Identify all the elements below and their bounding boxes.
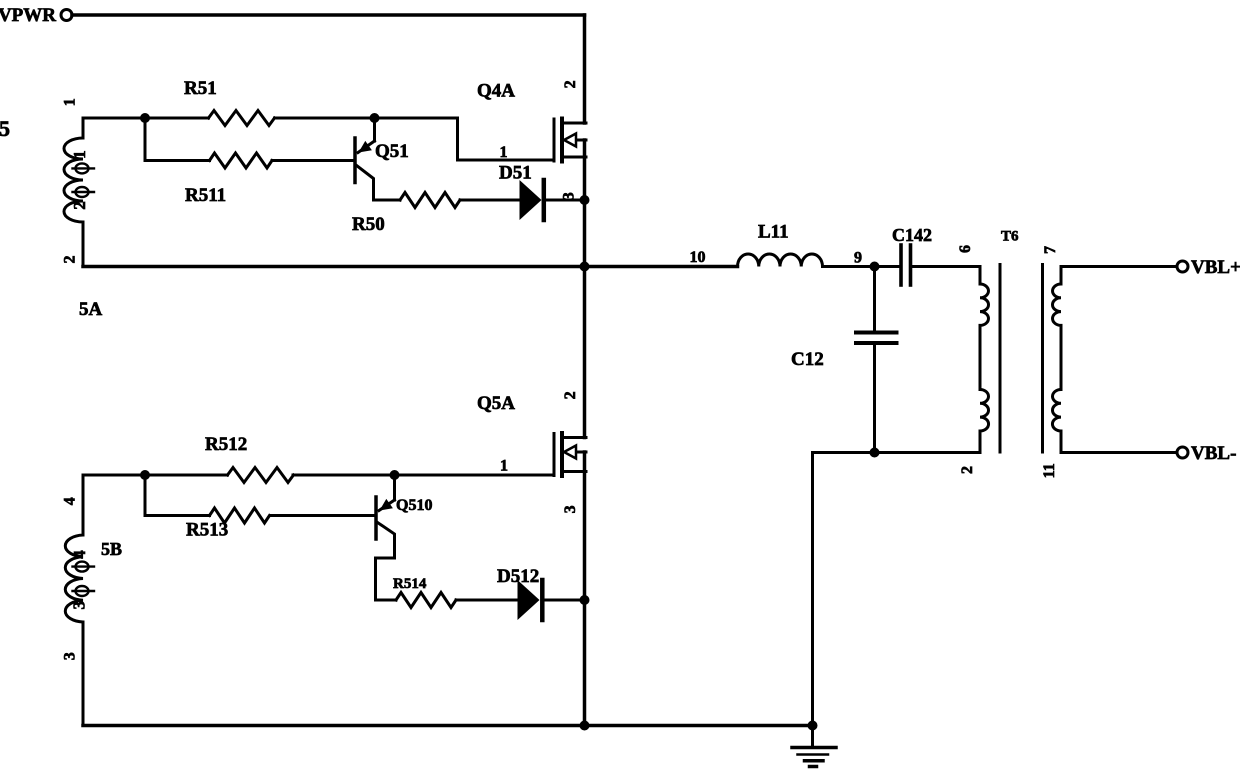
winding polarity mark (73, 586, 95, 596)
capacitor C142 (901, 245, 911, 285)
wire to gate Q5A (293, 474, 554, 477)
svg-text:C142: C142 (892, 225, 932, 245)
svg-text:6: 6 (957, 245, 974, 253)
winding polarity mark (73, 163, 95, 173)
node junction (580, 195, 590, 205)
svg-text:Q510: Q510 (396, 497, 432, 514)
wire bus Q4A source down (583, 140, 587, 438)
resistor R514 (396, 593, 456, 608)
svg-text:R50: R50 (352, 214, 385, 235)
wire bottom rail (83, 724, 813, 728)
svg-text:VBL+: VBL+ (1191, 257, 1240, 278)
transformer T6 core (1000, 265, 1043, 453)
svg-text:2: 2 (62, 256, 79, 264)
diode D51 (520, 180, 544, 220)
svg-text:R511: R511 (185, 185, 226, 206)
mosfet Q4A (554, 119, 586, 162)
resistor R51 (209, 111, 275, 126)
transformer winding T5A (64, 118, 83, 267)
wire mid rail left (83, 265, 738, 269)
node junction mid rail (580, 262, 590, 272)
svg-text:5A: 5A (79, 299, 103, 320)
svg-text:2: 2 (70, 201, 89, 210)
wire ground lead (811, 453, 814, 747)
svg-text:1: 1 (500, 144, 508, 161)
svg-text:3: 3 (562, 505, 579, 513)
wire R50 to D51 (460, 199, 520, 202)
wire R511 to base (272, 159, 354, 162)
svg-text:VPWR: VPWR (0, 5, 56, 26)
wire T5A top to gate network (83, 117, 209, 120)
terminal VBL+ (1177, 261, 1188, 272)
mosfet Q5A (554, 433, 586, 476)
svg-text:7: 7 (1042, 246, 1059, 254)
terminal VBL- (1177, 447, 1188, 458)
resistor R512 (228, 468, 294, 483)
svg-text:3: 3 (62, 652, 79, 660)
wire gate drop Q4A (458, 118, 555, 160)
wire secondary top out (1061, 265, 1177, 268)
node junction (140, 113, 150, 123)
resistor R513 (210, 508, 270, 523)
node junction (390, 470, 400, 480)
svg-text:5B: 5B (101, 539, 122, 559)
svg-text:L11: L11 (758, 222, 789, 243)
wire R514 to D512 (456, 599, 518, 602)
node junction (580, 595, 590, 605)
svg-text:R51: R51 (184, 78, 217, 99)
resistor R511 (210, 153, 273, 168)
resistor R50 (400, 193, 460, 208)
svg-text:5: 5 (0, 116, 10, 141)
wire branch to R513 (145, 475, 210, 516)
node junction (808, 721, 818, 731)
svg-text:1: 1 (62, 98, 79, 106)
node junction (870, 448, 880, 458)
svg-text:2: 2 (562, 391, 579, 399)
svg-text:4: 4 (62, 497, 79, 505)
capacitor C12 (856, 267, 897, 453)
svg-text:1: 1 (500, 458, 508, 475)
node junction (140, 470, 150, 480)
svg-text:9: 9 (854, 250, 862, 267)
wire branch to R511 (145, 118, 210, 161)
svg-text:1: 1 (70, 150, 89, 159)
ground (792, 748, 836, 767)
wire primary bottom to ground node (813, 451, 981, 454)
transformer winding T5B (65, 475, 83, 726)
winding polarity mark (73, 562, 95, 572)
wire R513 to base (271, 514, 375, 517)
svg-text:R512: R512 (205, 434, 247, 455)
wire D51 to bus (546, 199, 585, 202)
terminal VPWR (61, 10, 72, 21)
node junction (580, 721, 590, 731)
svg-text:R513: R513 (186, 520, 228, 541)
svg-text:3: 3 (561, 192, 578, 200)
node junction (370, 113, 380, 123)
svg-text:Q51: Q51 (375, 141, 409, 162)
svg-text:R514: R514 (393, 576, 427, 592)
diode D512 (518, 580, 543, 620)
wire to gate drop (275, 117, 458, 120)
wire D512 to bus (546, 599, 585, 602)
svg-text:D512: D512 (497, 566, 539, 587)
svg-text:3: 3 (70, 601, 89, 610)
svg-text:Q5A: Q5A (477, 393, 515, 414)
wire T5B top to gate network (83, 474, 228, 477)
transformer T6 secondary winding (1052, 267, 1061, 453)
svg-text:C12: C12 (791, 349, 824, 370)
svg-text:Q4A: Q4A (477, 81, 515, 102)
node junction (870, 262, 880, 272)
svg-text:VBL-: VBL- (1191, 443, 1236, 464)
svg-text:T6: T6 (1001, 229, 1019, 245)
wire L11 to C142 (823, 265, 900, 268)
svg-text:4: 4 (70, 550, 89, 559)
wire secondary bottom out (1061, 451, 1177, 454)
winding polarity mark (73, 187, 95, 197)
wire bus drain Q4A (583, 15, 587, 123)
svg-text:11: 11 (1041, 463, 1058, 478)
svg-text:10: 10 (690, 249, 706, 266)
transistor Q510 (376, 475, 397, 600)
wire top rail (72, 13, 585, 17)
wire bus Q5A source down (583, 452, 587, 726)
svg-text:2: 2 (959, 466, 976, 474)
inductor L11 (738, 254, 823, 267)
wire C142 to T6 (912, 265, 980, 268)
svg-text:2: 2 (562, 80, 579, 88)
transistor Q51 (355, 118, 400, 200)
transformer T6 primary winding (980, 267, 989, 453)
svg-text:D51: D51 (499, 163, 532, 184)
